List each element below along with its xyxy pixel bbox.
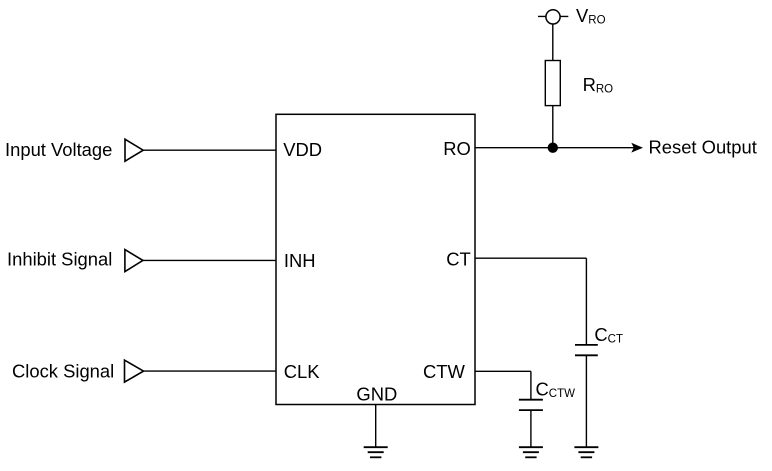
wire VRO to resistor RRO [552, 24, 554, 61]
wire capacitor CCT to ground [585, 355, 587, 447]
svg-text:Input Voltage: Input Voltage [5, 139, 112, 160]
capacitor CCT [575, 345, 598, 355]
wire Inhibit Signal to INH [143, 259, 276, 261]
ground (CCTW) [519, 447, 543, 457]
svg-text:INH: INH [284, 250, 316, 271]
IC U1 body [276, 114, 475, 404]
ground (CCT) [574, 447, 598, 457]
arrowhead Reset Output [631, 143, 643, 153]
svg-text:Clock Signal: Clock Signal [12, 361, 114, 382]
wire Clock Signal to CLK [144, 370, 277, 372]
svg-text:VDD: VDD [283, 139, 322, 160]
resistor RRO [545, 61, 560, 106]
input buffer triangle (Clock Signal) [125, 360, 144, 382]
ground (GND) [364, 447, 388, 457]
wire CTW to capacitor CCTW [475, 371, 531, 399]
wire capacitor CCTW to ground [530, 410, 532, 447]
svg-text:GND: GND [356, 383, 397, 404]
wire GND pin to ground [375, 405, 377, 448]
input buffer triangle (Input Voltage) [125, 139, 143, 161]
capacitor CCTW [519, 400, 543, 410]
wire resistor RRO to RO node [552, 106, 554, 148]
svg-text:CLK: CLK [284, 361, 321, 382]
wire Input Voltage to VDD [143, 149, 276, 151]
wire RO to Reset Output [475, 147, 634, 149]
svg-text:Reset Output: Reset Output [649, 137, 757, 158]
supply terminal VRO (circle with bar) [538, 10, 568, 24]
junction node RO [548, 143, 558, 153]
svg-text:Inhibit Signal: Inhibit Signal [7, 249, 112, 270]
input buffer triangle (Inhibit Signal) [125, 250, 143, 272]
svg-text:CT: CT [446, 249, 471, 270]
svg-text:RO: RO [443, 138, 471, 159]
svg-text:CTW: CTW [423, 361, 466, 382]
wire CT to capacitor CCT [475, 258, 586, 345]
